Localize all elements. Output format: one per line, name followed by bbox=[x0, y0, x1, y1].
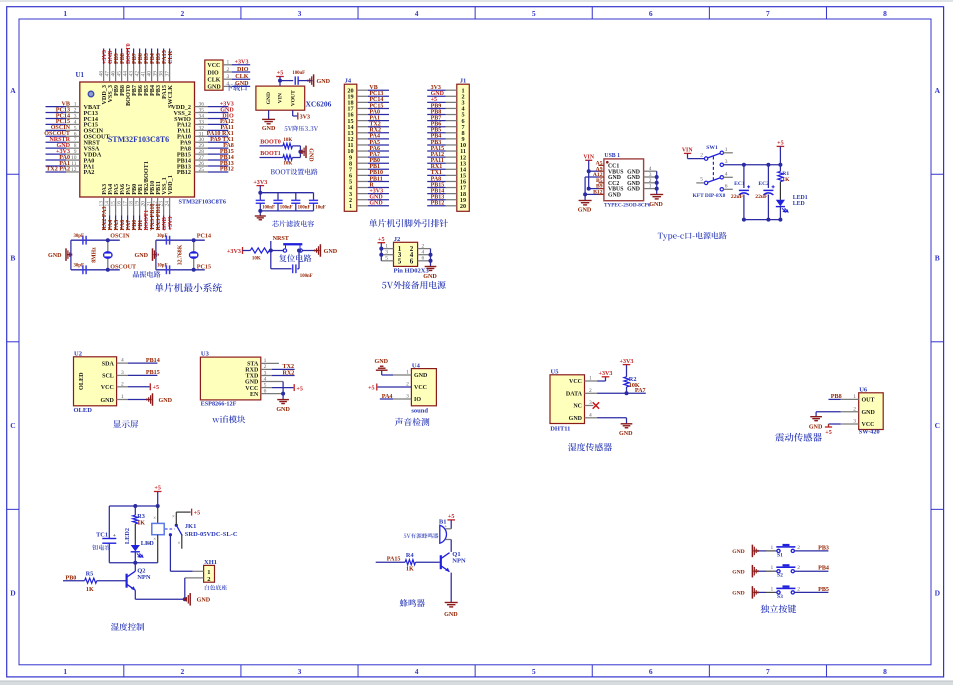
wire SW1 pin4 stub bbox=[724, 176, 733, 178]
mcu U1 right pin 35 VSS_2 bbox=[195, 112, 209, 114]
wire sound IO bbox=[393, 398, 411, 400]
svg-text:TX2 PA2: TX2 PA2 bbox=[46, 167, 70, 173]
wire led/cap bottom bus bbox=[744, 219, 781, 221]
resistor 10K reset pullup bbox=[250, 248, 269, 253]
svg-text:2: 2 bbox=[227, 67, 230, 73]
resistor 10K (BOOT0) bbox=[283, 143, 293, 148]
caption type-c power circuit bbox=[658, 232, 727, 241]
svg-text:1: 1 bbox=[649, 184, 652, 190]
svg-text:GND: GND bbox=[578, 208, 592, 214]
svg-text:R4: R4 bbox=[406, 552, 415, 559]
power +3V3 filter caps bbox=[257, 185, 265, 187]
svg-text:GND: GND bbox=[649, 202, 663, 208]
wire wifi RXD bbox=[261, 368, 272, 370]
wire crystal left bus bbox=[155, 240, 157, 270]
junction NRST bbox=[269, 250, 284, 252]
push button S3 bbox=[777, 591, 780, 594]
mcu U1 bottom pin 19 PB1 bbox=[139, 197, 141, 216]
svg-text:BOOT0: BOOT0 bbox=[260, 140, 281, 146]
mcu U1 right pin 28 PB15 bbox=[195, 153, 209, 155]
svg-text:+5: +5 bbox=[448, 514, 455, 520]
mcu U1 right pin 34 SWIO bbox=[195, 117, 209, 119]
mcu U1 pin-1 marker dot bbox=[88, 91, 94, 97]
connector J2 body bbox=[394, 242, 418, 266]
svg-text:VDD_1: VDD_1 bbox=[167, 175, 174, 195]
capacitor 100nF reset bbox=[292, 264, 294, 273]
svg-text:10K: 10K bbox=[283, 162, 292, 167]
svg-text:TYPEC-2SOD-8CP6: TYPEC-2SOD-8CP6 bbox=[604, 202, 651, 208]
svg-text:PB14: PB14 bbox=[146, 358, 160, 364]
svg-text:VCC: VCC bbox=[207, 63, 220, 69]
caption vibration sensor bbox=[775, 433, 821, 442]
svg-text:STM32F103C8T6: STM32F103C8T6 bbox=[108, 135, 169, 144]
svg-text:37: 37 bbox=[165, 71, 171, 77]
mcu U1 right pin 31 PA10 bbox=[195, 135, 209, 137]
svg-text:GND: GND bbox=[308, 148, 314, 162]
svg-text:5: 5 bbox=[532, 667, 536, 676]
transistor Q2 NPN bbox=[125, 574, 127, 588]
mcu U1 top pin 39 PB3 bbox=[157, 49, 159, 65]
connector P1 download port body bbox=[205, 60, 223, 90]
svg-text:10K: 10K bbox=[629, 383, 640, 389]
push button reset bbox=[283, 249, 286, 252]
wire VIN to SW1 pin2 bbox=[688, 158, 705, 160]
mcu U1 left pin 4 PC15 bbox=[46, 123, 67, 125]
svg-text:GND: GND bbox=[197, 598, 211, 604]
mcu U1 top pin 44 BOOT0 bbox=[127, 49, 129, 65]
svg-text:U2: U2 bbox=[74, 350, 82, 357]
connector J1 body bbox=[457, 84, 470, 211]
wire Q2 emitter to gnd bbox=[134, 590, 136, 599]
svg-text:3V3: 3V3 bbox=[300, 114, 311, 120]
svg-text:VCC: VCC bbox=[414, 385, 427, 391]
ground bar at input cap bbox=[313, 74, 315, 87]
svg-text:DHT11: DHT11 bbox=[550, 426, 570, 433]
svg-text:PA4: PA4 bbox=[382, 394, 393, 400]
svg-text:GND: GND bbox=[235, 81, 249, 87]
svg-text:2: 2 bbox=[797, 565, 800, 571]
svg-text:B: B bbox=[935, 254, 940, 263]
svg-text:D: D bbox=[935, 589, 941, 598]
svg-text:TX2: TX2 bbox=[283, 364, 295, 370]
mcu U1 top pin 47 VSS_3 bbox=[109, 49, 111, 65]
svg-text:PB8: PB8 bbox=[831, 394, 842, 400]
wire crystal left bus bbox=[70, 240, 72, 270]
svg-text:JK1: JK1 bbox=[185, 523, 197, 530]
svg-text:+3V3: +3V3 bbox=[620, 359, 634, 365]
svg-text:2: 2 bbox=[797, 586, 800, 592]
svg-text:1: 1 bbox=[771, 586, 774, 592]
svg-text:D: D bbox=[10, 589, 16, 598]
svg-text:1: 1 bbox=[385, 243, 388, 249]
svg-text:A: A bbox=[935, 86, 941, 95]
svg-text:GND: GND bbox=[809, 424, 823, 430]
svg-text:+5: +5 bbox=[277, 71, 284, 77]
power +5 at regulator input bbox=[276, 76, 284, 78]
capacitor 100nF (filter 3) bbox=[295, 193, 297, 201]
svg-text:R5: R5 bbox=[86, 570, 94, 577]
wire VOUT to 3V3 bbox=[292, 110, 294, 116]
svg-text:PC14: PC14 bbox=[197, 234, 211, 240]
ground earth sw420 bbox=[810, 416, 822, 418]
svg-text:GND: GND bbox=[207, 85, 221, 91]
svg-text:5: 5 bbox=[532, 9, 536, 18]
caption mcu pin breakout headers bbox=[369, 219, 448, 227]
transistor Q1 NPN bbox=[440, 555, 442, 569]
svg-text:22uF: 22uF bbox=[755, 194, 768, 200]
ground earth buzzer bbox=[445, 602, 458, 604]
svg-text:SDA: SDA bbox=[102, 361, 115, 367]
svg-text:+3V3: +3V3 bbox=[235, 60, 249, 66]
svg-text:1: 1 bbox=[349, 203, 352, 210]
wire BOOT0 to gnd node bbox=[292, 145, 300, 147]
svg-text:XH1: XH1 bbox=[204, 559, 217, 566]
wire crystal top row bbox=[71, 239, 120, 241]
wire sw420 GND bbox=[841, 411, 859, 413]
svg-text:4: 4 bbox=[415, 667, 419, 676]
svg-text:S3: S3 bbox=[777, 594, 783, 600]
ground earth filter caps bbox=[259, 211, 261, 216]
svg-text:GND: GND bbox=[134, 253, 148, 259]
connector J4 body bbox=[344, 84, 357, 211]
svg-text:VIN: VIN bbox=[583, 154, 594, 160]
mcu U1 bottom pin 22 PB11 bbox=[157, 197, 159, 216]
power +5 at led branch bbox=[777, 145, 785, 147]
svg-text:×: × bbox=[153, 537, 156, 542]
junction BOOT divider bbox=[298, 150, 302, 154]
svg-text:B: B bbox=[10, 254, 15, 263]
push button S1 bbox=[777, 549, 780, 552]
svg-text:×: × bbox=[172, 515, 175, 520]
svg-text:GND: GND bbox=[423, 274, 437, 280]
svg-text:VCC: VCC bbox=[569, 379, 582, 385]
svg-text:3: 3 bbox=[298, 667, 302, 676]
svg-text:100nF: 100nF bbox=[280, 206, 293, 211]
svg-text:S1: S1 bbox=[777, 552, 783, 558]
filter caps top bus wire bbox=[260, 192, 313, 194]
connector USB1 type-c body bbox=[604, 159, 644, 201]
svg-text:+5: +5 bbox=[825, 430, 832, 436]
vibration sensor U6 SW-420 body bbox=[859, 393, 884, 430]
ground earth dht11 bbox=[621, 423, 633, 425]
ground earth usb left bbox=[579, 200, 592, 202]
mcu U1 right pin 33 PA12 bbox=[195, 123, 209, 125]
wire crystal top row bbox=[156, 239, 205, 241]
label white socket bbox=[205, 585, 227, 590]
svg-text:100nF: 100nF bbox=[298, 206, 311, 211]
mcu U1 STM32F103C8T6 body bbox=[80, 82, 195, 197]
svg-text:EC2: EC2 bbox=[758, 181, 769, 187]
svg-text:3: 3 bbox=[298, 9, 302, 18]
svg-text:PB3: PB3 bbox=[818, 545, 829, 551]
display U2 OLED body bbox=[74, 357, 117, 406]
svg-text:1: 1 bbox=[227, 60, 230, 66]
svg-text:SW1: SW1 bbox=[706, 145, 718, 151]
svg-text:SWCLK: SWCLK bbox=[167, 85, 174, 108]
svg-text:GND: GND bbox=[159, 398, 173, 404]
mcu U1 left pin 3 PC14 bbox=[46, 117, 67, 119]
caption 5V step-down 3.3V bbox=[284, 126, 318, 132]
capacitor 30pF top bbox=[82, 236, 84, 245]
sound sensor U4 body bbox=[411, 369, 436, 406]
wire SW1 pin6 stub bbox=[724, 188, 733, 190]
svg-text:+5: +5 bbox=[368, 385, 375, 391]
mcu U1 top pin 37 SWCLK bbox=[169, 49, 171, 65]
wire usb right GND bus bbox=[656, 171, 658, 194]
svg-text:30pF: 30pF bbox=[157, 234, 167, 239]
svg-text:3: 3 bbox=[385, 250, 388, 256]
caption humidity control bbox=[111, 623, 144, 631]
svg-text:6: 6 bbox=[422, 256, 425, 262]
svg-text:GND: GND bbox=[245, 380, 259, 386]
svg-text:NC: NC bbox=[573, 404, 582, 410]
wire wifi EN bbox=[261, 393, 283, 395]
wire key S3 left bbox=[759, 591, 766, 593]
caption independent keys bbox=[761, 605, 797, 613]
mcu U1 bottom pin 20 PB2/BOOT1 bbox=[145, 197, 147, 216]
wire SW1 pin3 to +5 bus bbox=[724, 164, 781, 166]
svg-text:12: 12 bbox=[71, 167, 77, 173]
svg-text:10pF: 10pF bbox=[157, 263, 167, 268]
svg-text:1: 1 bbox=[63, 9, 67, 18]
power +5 wifi bbox=[261, 387, 272, 389]
svg-text:DIO: DIO bbox=[207, 70, 219, 76]
svg-text:GND: GND bbox=[608, 193, 621, 199]
filter caps bottom bus wire bbox=[260, 210, 313, 212]
svg-text:GND: GND bbox=[48, 253, 62, 259]
svg-text:BOOT1: BOOT1 bbox=[260, 151, 281, 157]
svg-text:GND: GND bbox=[317, 79, 331, 85]
capacitor 10uF (filter 4) bbox=[313, 193, 315, 201]
svg-text:8: 8 bbox=[883, 9, 887, 18]
power +5 at J2 bbox=[378, 242, 386, 244]
svg-text:J4: J4 bbox=[345, 78, 352, 85]
mcu U1 bottom pin 15 PA5 bbox=[115, 197, 117, 216]
svg-text:U4: U4 bbox=[412, 362, 421, 369]
caption download port bbox=[226, 84, 247, 91]
svg-text:100nF: 100nF bbox=[262, 206, 275, 211]
svg-text:VCC: VCC bbox=[101, 385, 114, 391]
led LED2 bbox=[134, 524, 136, 546]
label tantalum cap bbox=[92, 545, 110, 551]
wire key S1 right bbox=[794, 550, 828, 552]
caption mcu minimum system bbox=[155, 283, 222, 292]
svg-text:PB12: PB12 bbox=[177, 169, 191, 176]
svg-text:SW-420: SW-420 bbox=[859, 429, 880, 436]
wire wifi STA stub bbox=[261, 362, 279, 364]
crystal 8MHz bbox=[107, 240, 109, 270]
svg-text:10K: 10K bbox=[252, 257, 261, 262]
svg-text:+3V3: +3V3 bbox=[168, 217, 174, 231]
svg-text:GND: GND bbox=[444, 612, 458, 618]
mcu U1 left pin 12 PA2 bbox=[46, 171, 67, 173]
svg-text:DATA: DATA bbox=[566, 392, 583, 398]
svg-text:VCC: VCC bbox=[862, 422, 875, 428]
svg-text:GND: GND bbox=[619, 431, 633, 437]
caption crystal circuit bbox=[133, 271, 161, 278]
svg-text:GND: GND bbox=[732, 549, 744, 555]
svg-text:+3V3: +3V3 bbox=[227, 249, 241, 255]
svg-text:2: 2 bbox=[700, 152, 703, 158]
svg-text:U6: U6 bbox=[859, 387, 868, 394]
svg-text:EN: EN bbox=[250, 392, 259, 398]
svg-text:U3: U3 bbox=[201, 350, 210, 357]
svg-text:100uF: 100uF bbox=[292, 71, 305, 76]
svg-text:EC1: EC1 bbox=[734, 181, 745, 187]
caption sound detection bbox=[395, 418, 430, 426]
capacitor EC1 22uF bbox=[743, 165, 745, 188]
svg-text:10uF: 10uF bbox=[315, 206, 325, 211]
svg-text:+5: +5 bbox=[154, 486, 161, 492]
svg-text:1K: 1K bbox=[406, 566, 414, 572]
led LED1 bbox=[779, 182, 781, 200]
wire dht11 DATA to PA7 bbox=[585, 392, 598, 394]
power +5 humidity control bbox=[154, 491, 162, 493]
wire usb GND pins to earth bbox=[585, 176, 598, 178]
svg-text:1: 1 bbox=[771, 565, 774, 571]
mcu U1 bottom pin 23 VSS_1 bbox=[163, 197, 165, 216]
wire SW1 pin5 stub bbox=[696, 182, 704, 184]
wire Q2 collector bbox=[134, 563, 136, 572]
crystal 32.768K bbox=[193, 240, 195, 270]
mcu U1 top pin 46 PB9 bbox=[115, 49, 117, 65]
ground earth at regulator GND pin bbox=[268, 110, 270, 119]
svg-text:RXD: RXD bbox=[245, 368, 259, 374]
svg-text:OSCIN: OSCIN bbox=[110, 234, 130, 240]
ground bar BOOT bbox=[305, 146, 307, 159]
wire top bus humidity control bbox=[109, 505, 157, 507]
svg-text:KFT DIP-8X8: KFT DIP-8X8 bbox=[693, 193, 726, 199]
svg-text:R2: R2 bbox=[629, 376, 637, 383]
resistor R2 10K pullup bbox=[626, 387, 628, 393]
svg-text:SRD-05VDC-SL-C: SRD-05VDC-SL-C bbox=[185, 531, 238, 538]
svg-text:J2: J2 bbox=[394, 236, 401, 243]
svg-text:GND: GND bbox=[732, 569, 744, 575]
svg-text:6: 6 bbox=[410, 257, 414, 265]
resistor R4 1K bbox=[405, 560, 415, 565]
wire buzzer to Q1 collector bbox=[450, 540, 452, 552]
svg-text:Pin HD02X3: Pin HD02X3 bbox=[394, 268, 430, 275]
svg-text:OUT: OUT bbox=[862, 398, 875, 404]
svg-text:32.768K: 32.768K bbox=[178, 244, 184, 265]
relay NC contact stub bbox=[181, 535, 183, 549]
svg-text:GND: GND bbox=[324, 249, 338, 255]
svg-text:A: A bbox=[10, 86, 16, 95]
wire VIN to VBUS pins bbox=[588, 160, 590, 188]
svg-text:CLK: CLK bbox=[235, 74, 248, 80]
svg-text:3: 3 bbox=[725, 159, 728, 165]
svg-text:GND: GND bbox=[266, 92, 272, 104]
capacitor 30pF bottom bbox=[82, 265, 84, 274]
svg-text:GND: GND bbox=[100, 398, 114, 404]
mcu U1 left pin 9 VDDA bbox=[46, 153, 67, 155]
svg-text:PB12: PB12 bbox=[431, 201, 445, 207]
capacitor 100nF (filter 2) bbox=[277, 193, 279, 201]
svg-text:2: 2 bbox=[180, 9, 184, 18]
svg-text:GND: GND bbox=[375, 359, 389, 365]
svg-text:6: 6 bbox=[725, 183, 728, 189]
svg-text:U1: U1 bbox=[76, 71, 85, 79]
mcu U1 bottom pin 17 PA7 bbox=[127, 197, 129, 216]
svg-text:CLK: CLK bbox=[168, 51, 174, 64]
svg-text:IO: IO bbox=[414, 397, 421, 403]
mcu U1 bottom pin 18 PB0 bbox=[133, 197, 135, 216]
svg-text:1K: 1K bbox=[86, 587, 94, 593]
dht11 NC pin no-connect bbox=[585, 405, 594, 407]
wire crystal bottom row bbox=[156, 269, 205, 271]
svg-text:SCL: SCL bbox=[102, 374, 114, 380]
mcu U1 top pin 40 PB4 bbox=[151, 49, 153, 65]
svg-text:30pF: 30pF bbox=[74, 234, 84, 239]
ground earth wifi bbox=[277, 399, 289, 401]
svg-text:VIN: VIN bbox=[682, 148, 693, 154]
svg-text:5: 5 bbox=[700, 177, 703, 183]
svg-text:S2: S2 bbox=[777, 573, 783, 579]
svg-text:ESP8266-12F: ESP8266-12F bbox=[201, 400, 237, 407]
mcu U1 top pin 48 VDD_3 bbox=[103, 49, 105, 65]
mcu U1 left pin 5 OSCIN bbox=[46, 129, 67, 131]
svg-text:LED2: LED2 bbox=[124, 528, 131, 544]
svg-text:24: 24 bbox=[165, 201, 171, 207]
svg-text:+5: +5 bbox=[777, 141, 784, 147]
svg-text:10K: 10K bbox=[283, 138, 292, 143]
svg-text:1: 1 bbox=[771, 545, 774, 551]
svg-text:CLK: CLK bbox=[207, 78, 220, 84]
label 5V active buzzer bbox=[404, 533, 439, 538]
wire crystal bottom row bbox=[71, 269, 120, 271]
svg-text:1: 1 bbox=[63, 667, 67, 676]
svg-text:25: 25 bbox=[199, 167, 205, 173]
wire reset button to gnd bbox=[302, 250, 319, 252]
svg-text:7: 7 bbox=[766, 667, 770, 676]
svg-text:GND: GND bbox=[369, 201, 383, 207]
wire bottom bus humidity control bbox=[109, 562, 157, 564]
power +5 buzzer bbox=[447, 519, 455, 521]
svg-text:PB5: PB5 bbox=[818, 587, 829, 593]
mcu U1 left pin 8 VSSA bbox=[46, 147, 67, 149]
svg-text:GND: GND bbox=[569, 416, 583, 422]
wire SW1 pin1 stub bbox=[724, 152, 733, 154]
capacitor EC2 22uF bbox=[767, 165, 769, 188]
mcu U1 right pin 32 PA11 bbox=[195, 129, 209, 131]
svg-text:GND: GND bbox=[627, 187, 640, 193]
svg-text:8: 8 bbox=[883, 667, 887, 676]
ground earth J2 bbox=[425, 266, 437, 268]
capacitor 100uF at regulator input bbox=[294, 76, 296, 84]
regulator U7 XC6206 body bbox=[256, 86, 305, 110]
mcu U1 right pin 29 PA8 bbox=[195, 147, 209, 149]
svg-text:+5: +5 bbox=[153, 385, 160, 391]
svg-text:7: 7 bbox=[766, 9, 770, 18]
connector XH1 body bbox=[204, 565, 215, 582]
power +5 sw420 (down) bbox=[841, 423, 859, 425]
svg-text:+5: +5 bbox=[296, 386, 303, 392]
svg-text:1: 1 bbox=[725, 147, 728, 153]
wire key S2 left bbox=[759, 570, 766, 572]
svg-text:LED: LED bbox=[793, 201, 805, 207]
svg-text:PB15: PB15 bbox=[146, 370, 160, 376]
mcu U1 bottom pin 16 PA6 bbox=[121, 197, 123, 216]
svg-text:3: 3 bbox=[227, 74, 230, 80]
svg-text:20: 20 bbox=[460, 203, 466, 210]
resistor R3 1K bbox=[134, 506, 136, 515]
power +3V3 dht11 bbox=[585, 380, 598, 382]
caption 5V external backup power bbox=[382, 281, 446, 289]
mcu U1 left pin 1 VBAT bbox=[46, 106, 67, 108]
mcu U1 top pin 41 PB5 bbox=[145, 49, 147, 65]
mcu U1 bottom pin 24 VDD_1 bbox=[169, 197, 171, 216]
svg-text:+: + bbox=[113, 533, 116, 539]
